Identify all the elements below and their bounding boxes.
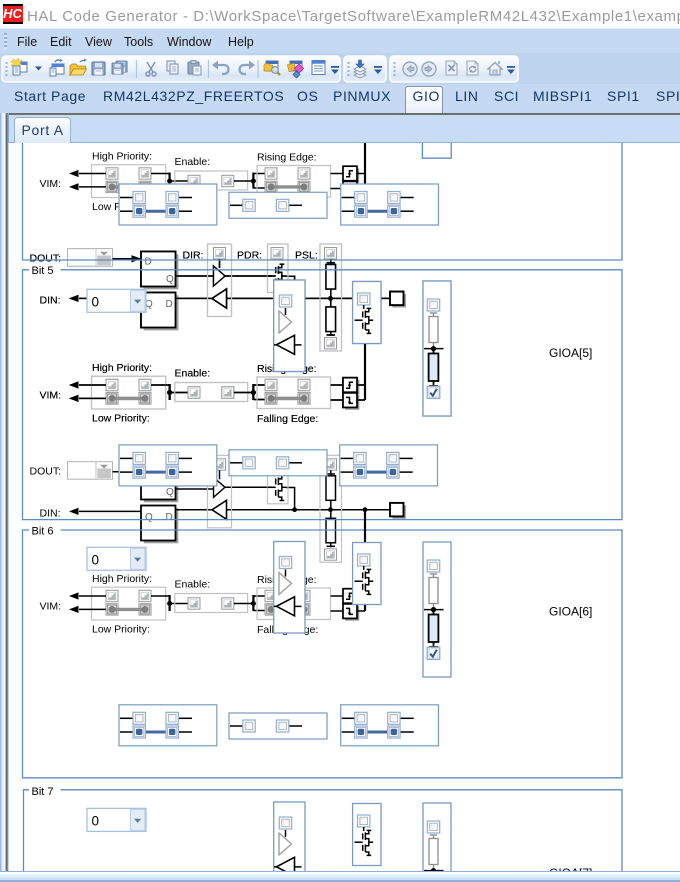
- svg-text:GIOA[5]: GIOA[5]: [549, 346, 592, 360]
- svg-text:Bit 5: Bit 5: [32, 265, 54, 277]
- svg-text:GIOA[6]: GIOA[6]: [549, 605, 592, 619]
- svg-text:Bit 6: Bit 6: [32, 526, 54, 538]
- svg-text:Bit 7: Bit 7: [32, 786, 54, 798]
